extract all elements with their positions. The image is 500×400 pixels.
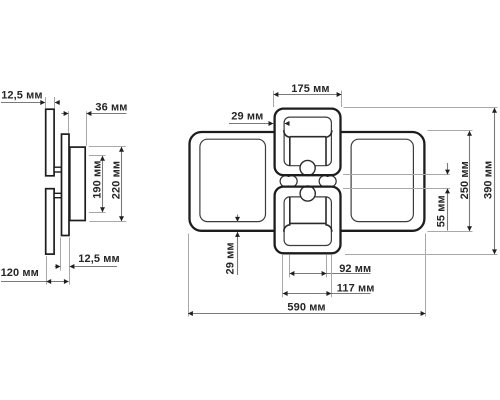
right lamp panel bbox=[351, 139, 413, 221]
svg-text:117 мм: 117 мм bbox=[337, 282, 375, 294]
bottom square frame outline bbox=[275, 187, 341, 254]
svg-text:12,5 мм: 12,5 мм bbox=[1, 90, 42, 102]
bottom square frame fill bbox=[275, 187, 341, 254]
svg-text:120 мм: 120 мм bbox=[1, 267, 39, 279]
dim 55 mm: arrows bbox=[445, 170, 450, 175]
side tab lower bbox=[54, 193, 61, 197]
svg-text:190 мм: 190 мм bbox=[91, 161, 103, 199]
dim 190 mm: extension lines bbox=[89, 156, 106, 213]
side body box bbox=[70, 147, 85, 220]
dim 250 mm: arrows bbox=[467, 131, 472, 136]
dim 220 mm: line bbox=[121, 147, 123, 221]
dim 29 mm bottom: vertical segments bbox=[237, 215, 239, 276]
main bar body bbox=[190, 132, 425, 231]
dim 12,5 mm top: extension lines bbox=[46, 97, 55, 108]
dim 590 mm: extension lines bbox=[189, 234, 426, 317]
dim 29 mm top: leader lines bbox=[229, 123, 289, 125]
dim 55 mm: vertical segments bbox=[447, 163, 449, 231]
dim 117 mm: line bbox=[283, 293, 371, 295]
dim 120 mm: arrows bbox=[46, 279, 51, 284]
left hinge barrel (two circles) bbox=[280, 176, 297, 187]
svg-text:175 мм: 175 мм bbox=[291, 83, 329, 95]
dim 390 mm: extension lines bbox=[344, 108, 498, 255]
side slab lower bbox=[46, 189, 54, 254]
svg-text:220 мм: 220 мм bbox=[110, 161, 122, 199]
dim 250 mm: line bbox=[469, 131, 471, 231]
dim 36 mm: extension lines bbox=[69, 111, 87, 146]
dim 92 mm: line bbox=[290, 273, 371, 275]
dim 190 mm: line bbox=[102, 156, 104, 212]
dim 29 mm top: arrows bbox=[269, 121, 274, 126]
dim 120 mm: line bbox=[1, 281, 69, 283]
svg-text:55 мм: 55 мм bbox=[436, 195, 448, 227]
svg-text:29 мм: 29 мм bbox=[224, 242, 236, 274]
svg-text:12,5 мм: 12,5 мм bbox=[78, 253, 119, 265]
svg-text:29 мм: 29 мм bbox=[231, 110, 263, 122]
dim 36 mm: leader lines bbox=[61, 113, 126, 115]
side column slab bbox=[62, 134, 70, 235]
side tab upper bbox=[54, 167, 61, 172]
dim 175 mm: line bbox=[274, 94, 342, 96]
right hinge barrel (two circles) bbox=[319, 176, 336, 187]
dim 12,5 mm bottom: leader lines bbox=[55, 266, 117, 268]
dim 220 mm: extension lines bbox=[89, 147, 127, 222]
dim 190 mm: arrows bbox=[100, 156, 105, 161]
dim 12,5 mm top: leader lines bbox=[1, 102, 60, 104]
dim 12,5 mm bottom: extension lines bbox=[61, 237, 70, 284]
top joint circle bbox=[300, 160, 315, 175]
dim 120 mm: extension line bbox=[46, 256, 48, 284]
bottom frame inner ring bbox=[284, 197, 331, 246]
svg-text:250 мм: 250 мм bbox=[459, 161, 471, 199]
dim 12,5 mm top: arrows bbox=[40, 100, 45, 105]
dim 36 mm: arrows bbox=[64, 111, 69, 116]
top frame tray (inner wall) bbox=[284, 130, 332, 165]
dim 390 mm: arrows bbox=[492, 108, 497, 113]
dim 55 mm: extension lines bbox=[343, 175, 450, 189]
top square frame outline bbox=[275, 109, 341, 176]
svg-text:390 мм: 390 мм bbox=[482, 161, 494, 199]
dim 250 mm: extension lines bbox=[428, 131, 473, 232]
svg-text:590 мм: 590 мм bbox=[287, 301, 325, 313]
dim 220 mm: arrows bbox=[119, 147, 124, 152]
dim 175 mm: arrows bbox=[274, 92, 279, 97]
bottom joint circle bbox=[300, 186, 315, 201]
dim 117 mm: arrows bbox=[283, 291, 288, 296]
top square frame fill bbox=[275, 109, 341, 176]
dim 175 mm: extension lines bbox=[274, 91, 342, 107]
dim 92 mm: arrows bbox=[290, 271, 295, 276]
dim 92 mm: extension lines bbox=[290, 255, 327, 278]
svg-text:36 мм: 36 мм bbox=[95, 101, 127, 113]
top frame inner ring bbox=[284, 117, 331, 166]
dim 12,5 mm bottom: arrows bbox=[56, 264, 61, 269]
side slab upper bbox=[46, 109, 54, 176]
bottom frame tray (inner wall) bbox=[284, 197, 332, 232]
svg-text:92 мм: 92 мм bbox=[339, 263, 371, 275]
dim 117 mm: extension lines bbox=[283, 255, 332, 297]
dim 590 mm: arrows bbox=[188, 311, 193, 316]
left lamp panel bbox=[200, 139, 266, 221]
dim 390 mm: line bbox=[494, 108, 496, 254]
dim 590 mm: line bbox=[188, 313, 425, 315]
dim 29 mm bottom: arrows bbox=[235, 217, 240, 222]
